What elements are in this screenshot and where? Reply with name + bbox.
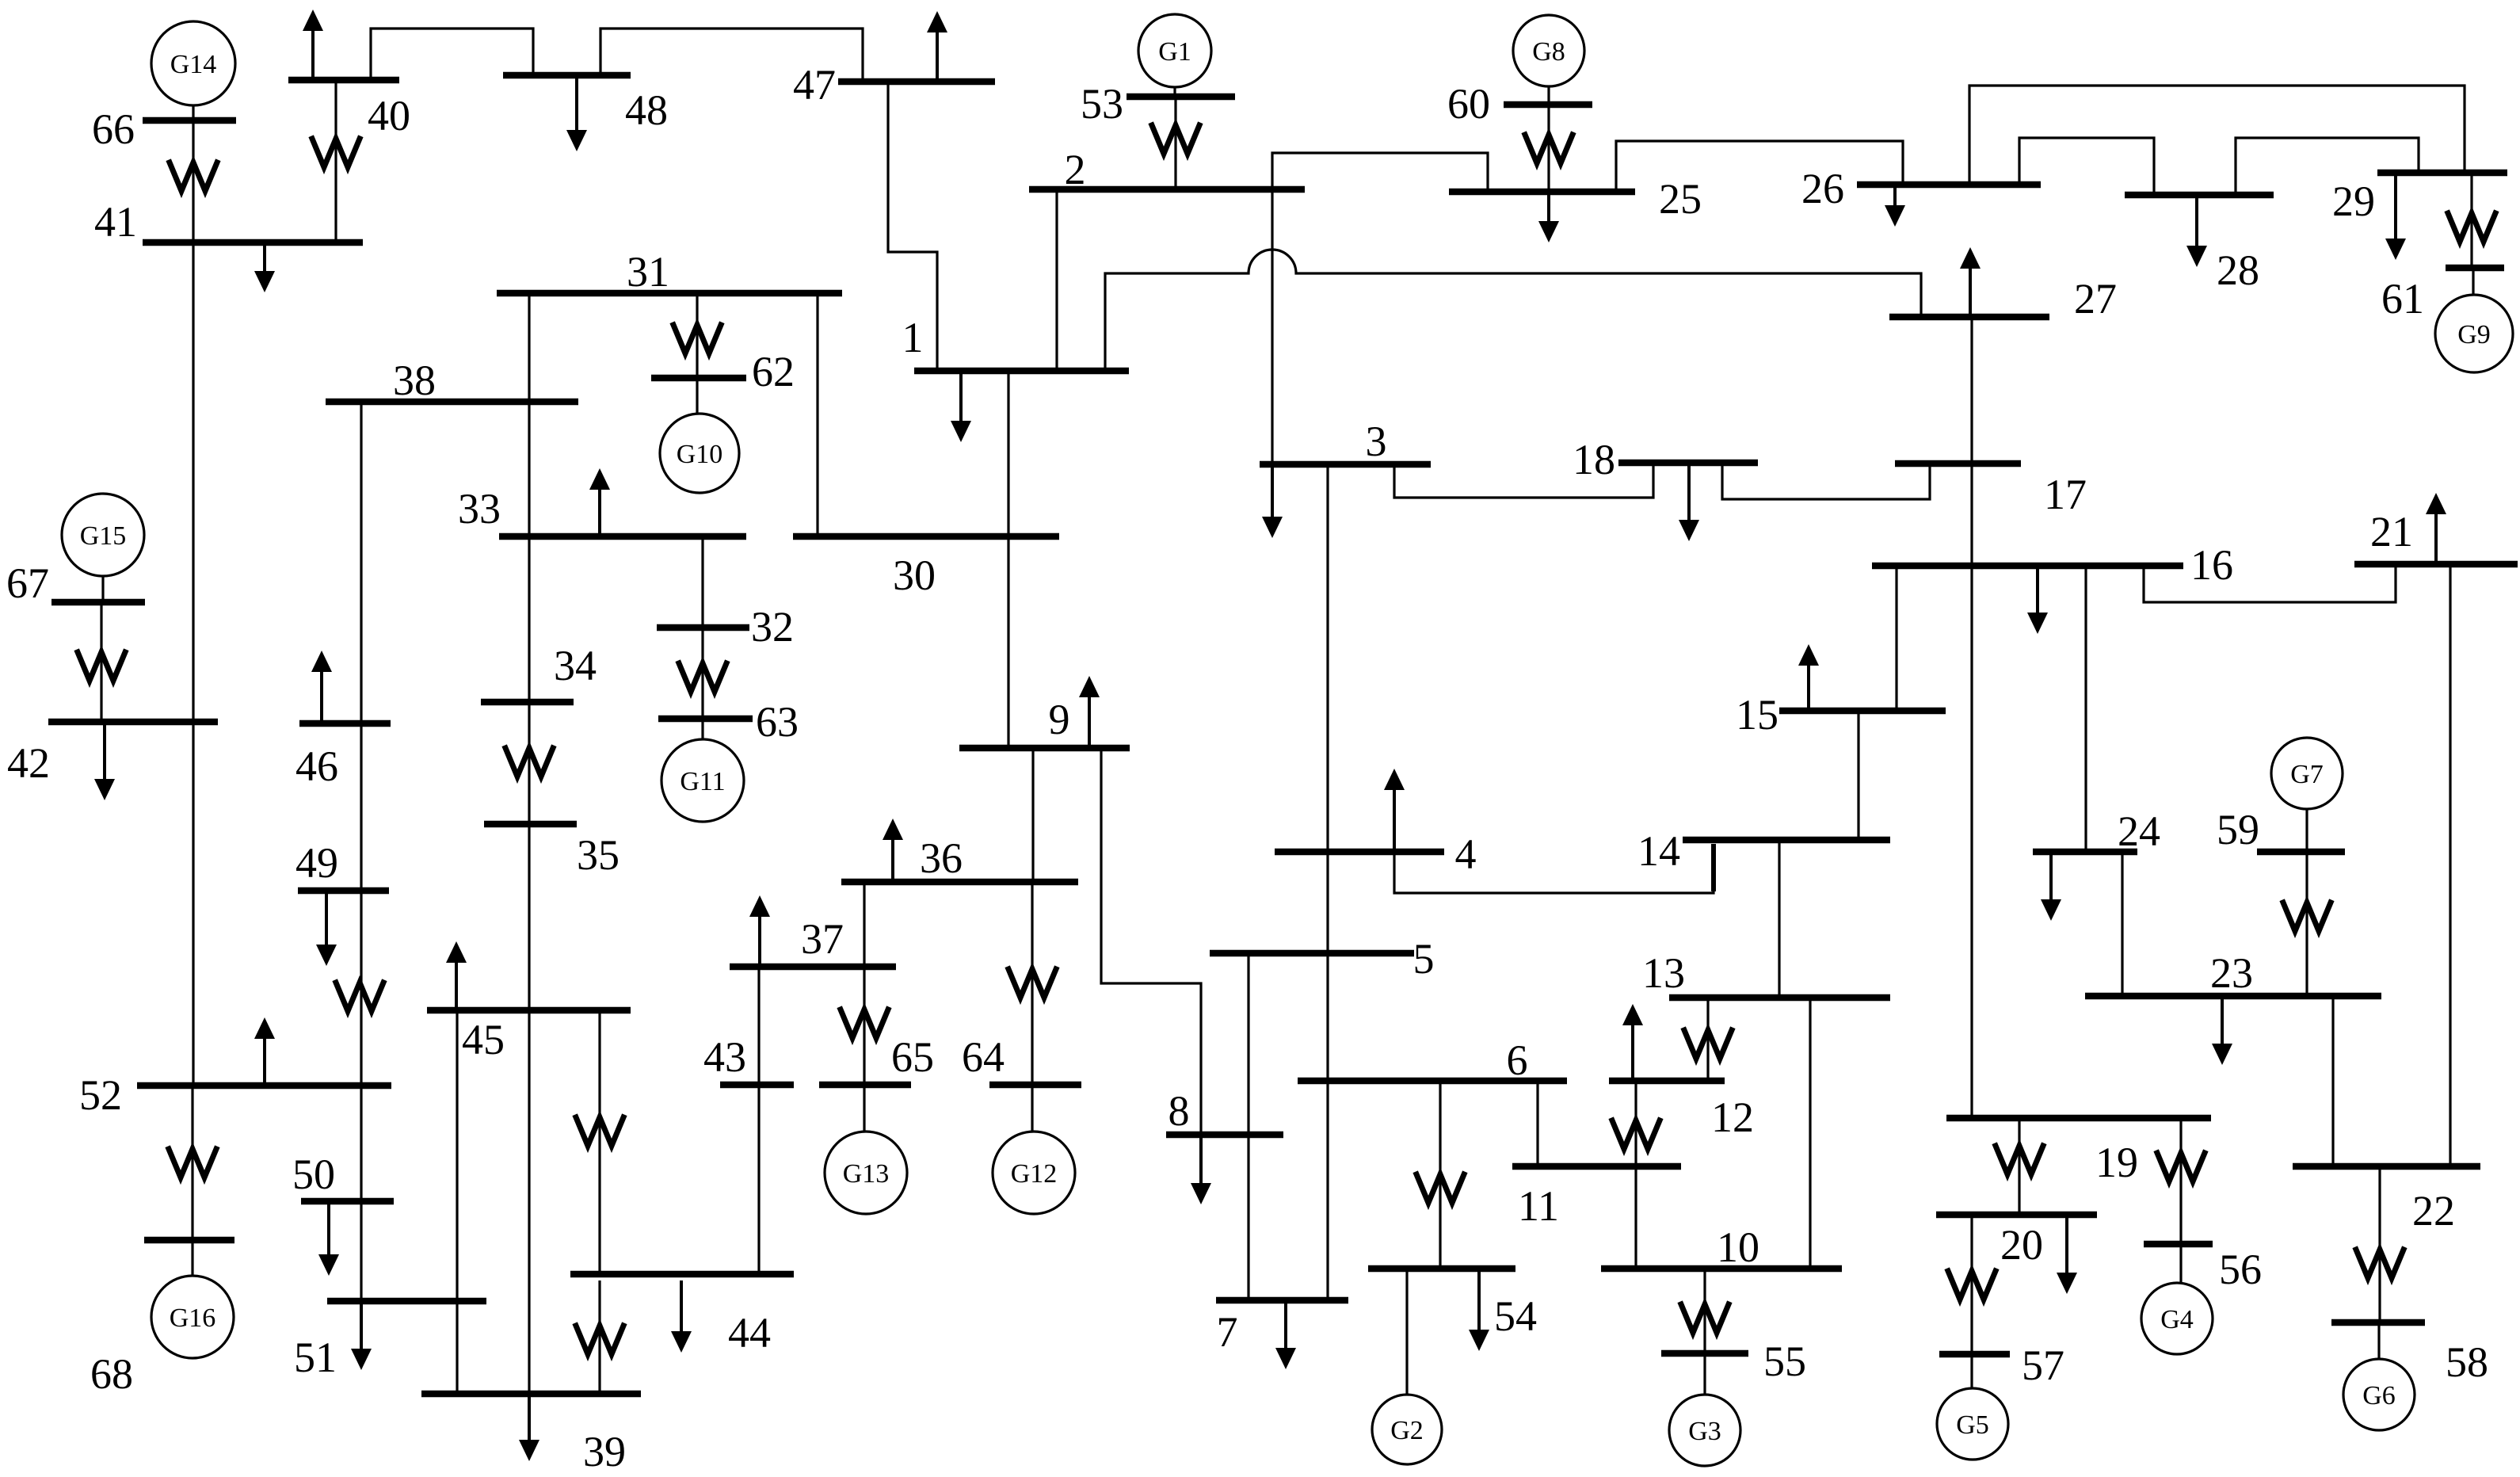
svg-text:63: 63 xyxy=(756,698,799,746)
transformer 22-58 (G6) xyxy=(2356,1250,2404,1278)
wire bus 64 to G12 xyxy=(1031,1088,1033,1132)
wire bus 9 to bus 36 xyxy=(1031,751,1034,879)
svg-text:G4: G4 xyxy=(2160,1305,2194,1334)
load/injection arrow (up) at bus 47 xyxy=(927,11,947,78)
svg-text:23: 23 xyxy=(2210,949,2253,997)
bus 48 xyxy=(503,75,668,134)
load/injection arrow (up) at bus 12 xyxy=(1622,1004,1643,1078)
bus 17 xyxy=(1895,464,2087,518)
svg-text:67: 67 xyxy=(6,559,49,607)
svg-text:G12: G12 xyxy=(1011,1159,1058,1189)
wire bus 34 to bus 35 xyxy=(528,705,530,821)
transformer 6-54 (G2) xyxy=(1416,1174,1464,1203)
bus 44 xyxy=(570,1274,794,1357)
svg-text:G3: G3 xyxy=(1688,1417,1721,1446)
wire bus 16 to bus 19 xyxy=(1970,569,1973,1115)
wire bus 5 to bus 7 through bus 8 xyxy=(1247,956,1249,1297)
generator G15 xyxy=(62,494,144,576)
wire bus 2 to bus 25 xyxy=(1272,153,1488,189)
transformer 29-61 (G9) xyxy=(2448,213,2495,242)
wire bus 27 to bus 17 xyxy=(1970,320,1973,460)
svg-text:64: 64 xyxy=(962,1033,1005,1081)
load arrow (down) at bus 28 xyxy=(2186,198,2207,267)
wire bus 63 to G11 xyxy=(701,722,703,740)
wire bus 28 to bus 29 xyxy=(2236,138,2419,192)
load arrow (down) at bus 16 xyxy=(2027,569,2048,634)
load arrow (down) at bus 51 xyxy=(351,1304,372,1370)
load arrow (down) at bus 50 xyxy=(318,1204,339,1276)
bus 36 xyxy=(841,834,1078,882)
svg-text:20: 20 xyxy=(2000,1221,2043,1269)
wire bus 14 stub of 4-14 connection xyxy=(1711,844,1716,891)
load/injection arrow (up) at bus 4 xyxy=(1384,769,1405,849)
wire bus 15 to bus 14 xyxy=(1857,714,1859,837)
bus 39 xyxy=(421,1394,641,1475)
svg-text:13: 13 xyxy=(1642,949,1685,997)
load arrow (down) at bus 23 xyxy=(2212,999,2232,1065)
wire bus 2 to bus 3 xyxy=(1271,193,1273,461)
svg-text:54: 54 xyxy=(1494,1292,1537,1340)
bus 23 xyxy=(2085,949,2381,997)
load arrow (down) at bus 25 xyxy=(1538,195,1559,242)
wire bus 65 to G13 xyxy=(863,1088,865,1132)
bus 50 xyxy=(292,1151,394,1201)
svg-text:35: 35 xyxy=(577,831,620,879)
svg-text:16: 16 xyxy=(2190,541,2233,589)
svg-text:19: 19 xyxy=(2095,1139,2138,1186)
svg-text:29: 29 xyxy=(2332,177,2375,225)
bus 64 xyxy=(962,1033,1081,1085)
svg-text:5: 5 xyxy=(1413,935,1435,983)
load arrow (down) at bus 42 xyxy=(94,725,115,800)
generator G16 xyxy=(151,1276,234,1358)
svg-text:26: 26 xyxy=(1801,165,1844,212)
wire bus 42 to bus 52 xyxy=(192,725,194,1082)
generator G1 xyxy=(1138,14,1211,87)
bus 43 xyxy=(703,1033,794,1085)
svg-text:6: 6 xyxy=(1507,1036,1528,1084)
bus 19 xyxy=(1946,1118,2211,1186)
wire bus 3 to bus 7 through buses 4 5 6 xyxy=(1326,468,1329,1297)
wire bus 13 to bus 10 xyxy=(1809,1001,1811,1265)
wire bus 29 to bus 61 xyxy=(2470,176,2472,265)
wire bus 45 to bus 44 xyxy=(598,1013,600,1274)
load arrow (down) at bus 26 xyxy=(1885,188,1905,227)
svg-text:42: 42 xyxy=(7,739,50,787)
wire bus 16 to bus 21 xyxy=(2144,561,2396,602)
wire bus 33 to bus 34 xyxy=(528,540,530,699)
wire bus 21 to bus 22 xyxy=(2449,567,2451,1163)
wire bus 30 to bus 9 xyxy=(1007,540,1009,745)
bus 47 xyxy=(793,61,995,109)
svg-text:30: 30 xyxy=(893,551,936,599)
wire bus 3 to bus 18 xyxy=(1394,466,1653,498)
svg-text:45: 45 xyxy=(462,1016,505,1063)
transformer 19-56 (G4) xyxy=(2157,1153,2205,1181)
load/injection arrow (up) at bus 45 xyxy=(446,941,467,1007)
svg-text:2: 2 xyxy=(1065,146,1086,193)
svg-text:18: 18 xyxy=(1573,436,1615,483)
generator G8 xyxy=(1513,15,1584,86)
wire bus 67 to bus 42 xyxy=(100,605,102,719)
wire G14 to bus 66 xyxy=(192,105,194,117)
wire bus 36 to bus 64 xyxy=(1031,885,1033,1082)
bus 12 xyxy=(1609,1081,1754,1141)
transformer 40-41 xyxy=(312,139,360,167)
bus 57 xyxy=(1939,1342,2064,1389)
svg-text:10: 10 xyxy=(1717,1223,1759,1271)
transformer 31-62 (G10) xyxy=(673,325,721,353)
wire bus 66 to bus 41 xyxy=(192,124,194,239)
bus 5 xyxy=(1210,935,1435,983)
svg-text:1: 1 xyxy=(902,314,924,361)
load/injection arrow (up) at bus 21 xyxy=(2426,493,2446,561)
svg-text:31: 31 xyxy=(627,248,669,296)
wire bus 33 to bus 32 xyxy=(701,540,703,624)
bus 22 xyxy=(2293,1166,2480,1235)
transformer 11-12 xyxy=(1612,1120,1660,1149)
transformer 19-20 xyxy=(1996,1146,2043,1174)
bus 4 xyxy=(1275,830,1477,878)
svg-text:59: 59 xyxy=(2217,806,2259,853)
wire bus 2 to bus 1 xyxy=(1055,193,1058,368)
bus 18 xyxy=(1573,436,1758,483)
svg-text:7: 7 xyxy=(1217,1308,1238,1356)
wire bus 48 to bus 47 xyxy=(600,29,863,78)
wire bus 1 to bus 30 xyxy=(1007,374,1009,533)
svg-text:G5: G5 xyxy=(1956,1410,1989,1440)
svg-text:34: 34 xyxy=(554,642,597,689)
wire G8 to bus 60 xyxy=(1547,86,1550,101)
generator G2 xyxy=(1372,1395,1442,1464)
transformer 12-13 xyxy=(1684,1030,1732,1059)
wire bus 45 to bus 39 through bus 51 xyxy=(456,1013,458,1391)
wire bus 41 to bus 42 xyxy=(192,246,194,719)
wire bus 19 to bus 56 xyxy=(2179,1121,2182,1241)
bus 2 xyxy=(1029,146,1305,193)
bus 9 xyxy=(959,696,1130,748)
svg-text:3: 3 xyxy=(1366,418,1387,465)
wire bus 55 to G3 xyxy=(1703,1357,1706,1395)
svg-text:39: 39 xyxy=(583,1428,626,1475)
generator G6 xyxy=(2343,1359,2415,1430)
svg-text:56: 56 xyxy=(2219,1246,2262,1293)
bus 46 xyxy=(295,723,391,790)
svg-text:49: 49 xyxy=(295,839,338,887)
wire bus 32 to bus 63 xyxy=(701,631,703,716)
load arrow (down) at bus 29 xyxy=(2385,176,2406,260)
svg-text:G14: G14 xyxy=(170,50,217,79)
svg-text:52: 52 xyxy=(79,1071,122,1119)
wire bus 17 to bus 16 xyxy=(1970,467,1973,563)
bus 16 xyxy=(1872,541,2233,589)
svg-text:17: 17 xyxy=(2044,471,2087,518)
bus 6 xyxy=(1298,1036,1567,1084)
bus 66 xyxy=(92,105,236,153)
wire bus 44 to bus 39 xyxy=(598,1280,600,1391)
svg-text:G15: G15 xyxy=(80,521,127,551)
bus 53 xyxy=(1081,80,1235,128)
svg-text:66: 66 xyxy=(92,105,135,153)
svg-text:65: 65 xyxy=(891,1033,934,1081)
wire bus 26 to bus 29 xyxy=(1969,86,2465,181)
bus 21 xyxy=(2354,508,2518,564)
wire bus 9 to bus 8 xyxy=(1101,751,1201,1132)
bus 34 xyxy=(481,642,597,702)
bus 14 xyxy=(1637,827,1890,875)
svg-text:44: 44 xyxy=(728,1309,771,1357)
bus 54 xyxy=(1368,1269,1537,1340)
svg-text:8: 8 xyxy=(1169,1087,1190,1135)
bus 63 xyxy=(658,698,799,746)
svg-text:9: 9 xyxy=(1049,696,1070,743)
bus 60 xyxy=(1447,80,1592,128)
bus 37 xyxy=(730,915,896,967)
generator G14 xyxy=(151,21,235,105)
svg-text:57: 57 xyxy=(2022,1342,2064,1389)
svg-text:G6: G6 xyxy=(2362,1381,2396,1410)
svg-text:53: 53 xyxy=(1081,80,1123,128)
bus 59 xyxy=(2217,806,2345,853)
bus 40 xyxy=(288,80,410,139)
wire bus 31 to bus 62 xyxy=(696,296,698,375)
svg-text:41: 41 xyxy=(94,198,137,246)
bus 26 xyxy=(1801,165,2041,212)
bus 28 xyxy=(2125,195,2274,294)
wire bus 4 to bus 14 xyxy=(1394,844,1714,893)
wire bus 26 to bus 28 xyxy=(2019,138,2154,192)
load arrow (down) at bus 39 xyxy=(519,1394,539,1461)
load/injection arrow (up) at bus 46 xyxy=(311,651,332,720)
load/injection arrow (up) at bus 40 xyxy=(303,10,323,77)
generator G4 xyxy=(2141,1283,2213,1354)
wire bus 35 to bus 39 through bus 45 xyxy=(528,827,530,1391)
svg-text:50: 50 xyxy=(292,1151,335,1198)
bus 29 xyxy=(2332,173,2507,225)
svg-text:33: 33 xyxy=(458,485,501,532)
wire bus 59 to bus 23 xyxy=(2305,855,2308,993)
svg-text:11: 11 xyxy=(1518,1182,1559,1230)
bus 38 xyxy=(326,357,578,404)
wire bus 47 to bus 1 xyxy=(888,85,937,368)
bus 41 xyxy=(94,198,363,246)
load/injection arrow (up) at bus 27 xyxy=(1960,247,1981,314)
transformer 53-2 (G1) xyxy=(1152,125,1199,154)
svg-text:61: 61 xyxy=(2381,275,2424,322)
wire bus 40 to bus 48 xyxy=(371,29,533,77)
svg-text:G7: G7 xyxy=(2290,760,2324,789)
bus 7 xyxy=(1216,1300,1348,1356)
svg-text:4: 4 xyxy=(1455,830,1477,878)
load arrow (down) at bus 7 xyxy=(1275,1303,1296,1369)
load arrow (down) at bus 18 xyxy=(1679,466,1699,541)
svg-text:40: 40 xyxy=(368,92,410,139)
transformer 37-65 (G13) xyxy=(841,1009,888,1038)
wire bus 60 to bus 25 xyxy=(1547,108,1550,189)
bus 20 xyxy=(1936,1215,2097,1269)
wire bus 16 to bus 15 xyxy=(1895,569,1897,708)
wire bus 18 to bus 17 xyxy=(1722,466,1930,499)
wire bus 16 to bus 24 xyxy=(2084,569,2087,849)
svg-text:15: 15 xyxy=(1736,691,1778,738)
svg-text:38: 38 xyxy=(393,357,436,404)
bus 30 xyxy=(793,536,1059,599)
svg-text:G1: G1 xyxy=(1158,37,1191,67)
svg-text:55: 55 xyxy=(1763,1338,1806,1385)
wire G1 to bus 53 xyxy=(1173,87,1176,94)
load arrow (down) at bus 49 xyxy=(316,894,337,966)
svg-text:58: 58 xyxy=(2446,1338,2488,1386)
load arrow (down) at bus 3 xyxy=(1262,468,1283,538)
svg-text:32: 32 xyxy=(751,603,794,651)
transformer 39-44 xyxy=(576,1326,623,1354)
wire bus 57 to G5 xyxy=(1970,1357,1973,1389)
svg-text:G9: G9 xyxy=(2457,320,2491,349)
wire bus 11 to bus 10 xyxy=(1634,1170,1637,1265)
load arrow (down) at bus 24 xyxy=(2041,855,2061,921)
svg-text:G10: G10 xyxy=(677,440,723,469)
load arrow (down) at bus 54 xyxy=(1469,1272,1489,1351)
wire bus 52 to bus 68 xyxy=(191,1089,193,1237)
transformer 20-57 (G5) xyxy=(1948,1271,1996,1300)
load/injection arrow (up) at bus 52 xyxy=(254,1017,275,1082)
wire bus 10 to bus 55 xyxy=(1703,1272,1706,1350)
bus 33 xyxy=(458,485,746,536)
svg-text:68: 68 xyxy=(90,1350,133,1398)
generator G7 xyxy=(2271,738,2343,809)
bus 35 xyxy=(484,824,620,879)
load/injection arrow (up) at bus 33 xyxy=(589,468,610,533)
transformer 66-41 (G14) xyxy=(170,162,217,191)
transformer 52-68 (G16) xyxy=(169,1149,216,1177)
wire bus 6 to bus 54 xyxy=(1439,1084,1441,1265)
bus 25 xyxy=(1449,175,1702,223)
bus 31 xyxy=(497,248,842,296)
wire bus 68 to G16 xyxy=(191,1243,193,1276)
svg-text:60: 60 xyxy=(1447,80,1490,128)
svg-text:G16: G16 xyxy=(170,1303,216,1333)
bus 27 xyxy=(1889,275,2117,322)
bus 62 xyxy=(651,348,795,395)
svg-text:G2: G2 xyxy=(1390,1416,1424,1445)
wire bus 12 to bus 11 xyxy=(1634,1084,1637,1163)
wire G7 to bus 59 xyxy=(2305,809,2308,849)
transformer 67-42 (G15) xyxy=(78,652,125,681)
svg-text:51: 51 xyxy=(294,1334,337,1381)
wire bus 6 to bus 11 xyxy=(1536,1084,1538,1163)
svg-text:12: 12 xyxy=(1711,1093,1754,1141)
bus 11 xyxy=(1512,1166,1681,1230)
load arrow (down) at bus 44 xyxy=(671,1280,692,1353)
wire bus 61 to G9 xyxy=(2472,271,2474,296)
bus 65 xyxy=(819,1033,934,1085)
load arrow (down) at bus 20 xyxy=(2057,1218,2077,1294)
bus 68 xyxy=(90,1240,234,1398)
bus 15 xyxy=(1736,691,1946,738)
wire bus 13 to bus 12 xyxy=(1706,1001,1709,1078)
load/injection arrow (up) at bus 36 xyxy=(883,819,903,879)
bus 61 xyxy=(2381,268,2504,322)
bus 24 xyxy=(2033,807,2160,855)
generator G9 xyxy=(2435,295,2513,372)
wire bus 38 to bus 51 chain xyxy=(360,405,362,1301)
svg-text:G11: G11 xyxy=(680,767,725,796)
bus 67 xyxy=(6,559,145,607)
wire bus 14 to bus 13 xyxy=(1778,843,1780,994)
wire bus 23 to bus 22 xyxy=(2331,999,2334,1163)
load/injection arrow (up) at bus 9 xyxy=(1079,676,1100,745)
bus 8 xyxy=(1166,1087,1283,1135)
bus 49 xyxy=(295,839,389,891)
generator G13 xyxy=(825,1132,907,1214)
svg-text:21: 21 xyxy=(2370,508,2413,555)
bus 45 xyxy=(427,1010,631,1063)
bus 10 xyxy=(1601,1223,1842,1271)
wire bus 36 to bus 37 xyxy=(863,885,865,964)
wire bus 31 to bus 33 through bus 38 xyxy=(528,296,530,533)
bus 56 xyxy=(2144,1244,2262,1293)
wire bus 58 to G6 xyxy=(2377,1326,2380,1360)
svg-text:47: 47 xyxy=(793,61,836,109)
transformer 36-64 (G12) xyxy=(1008,969,1056,998)
svg-text:25: 25 xyxy=(1659,175,1702,223)
generator G3 xyxy=(1669,1395,1740,1466)
wire bus 1 to bus 27 (hop over bus2-bus3 wire) xyxy=(1105,250,1921,368)
transformer 10-55 (G3) xyxy=(1681,1304,1729,1333)
bus 55 xyxy=(1661,1338,1806,1385)
transformer 34-35 xyxy=(505,748,553,777)
wire bus 62 to G10 xyxy=(696,381,698,414)
transformer 60-25 (G8) xyxy=(1525,135,1573,163)
generator G5 xyxy=(1937,1388,2008,1460)
svg-text:43: 43 xyxy=(703,1033,746,1081)
generator G10 xyxy=(660,414,739,493)
generator G12 xyxy=(993,1132,1075,1214)
bus 32 xyxy=(657,603,794,651)
svg-text:24: 24 xyxy=(2118,807,2160,855)
wire bus 31 to bus 30 xyxy=(816,296,818,533)
svg-text:14: 14 xyxy=(1637,827,1680,875)
svg-text:36: 36 xyxy=(920,834,963,882)
svg-text:37: 37 xyxy=(801,915,844,963)
transformer 32-63 (G11) xyxy=(679,663,726,692)
load arrow (down) at bus 48 xyxy=(566,78,587,151)
load/injection arrow (up) at bus 15 xyxy=(1798,644,1819,708)
bus 51 xyxy=(294,1301,486,1381)
bus 42 xyxy=(7,722,218,787)
load/injection arrow (up) at bus 37 xyxy=(749,895,770,964)
svg-text:28: 28 xyxy=(2217,246,2259,294)
wire bus 19 to bus 20 xyxy=(2018,1121,2020,1212)
bus 3 xyxy=(1260,418,1431,465)
svg-text:62: 62 xyxy=(752,348,795,395)
load arrow (down) at bus 8 xyxy=(1191,1138,1211,1204)
wire bus 22 to bus 58 xyxy=(2378,1170,2381,1319)
wire bus 24 to bus 23 xyxy=(2121,855,2123,993)
svg-text:48: 48 xyxy=(625,86,668,134)
load arrow (down) at bus 1 xyxy=(951,374,971,442)
wire G15 to bus 67 xyxy=(101,576,104,599)
load arrow (down) at bus 41 xyxy=(254,246,275,292)
bus 13 xyxy=(1642,949,1890,998)
transformer 44-45 xyxy=(576,1117,623,1146)
bus 58 xyxy=(2331,1322,2488,1386)
transformer 49-52 xyxy=(336,983,383,1011)
wire bus 56 to G4 xyxy=(2179,1247,2182,1284)
transformer 59-23 (G7) xyxy=(2283,903,2331,931)
wire bus 37 to bus 65 xyxy=(863,970,865,1082)
svg-text:22: 22 xyxy=(2412,1187,2455,1235)
